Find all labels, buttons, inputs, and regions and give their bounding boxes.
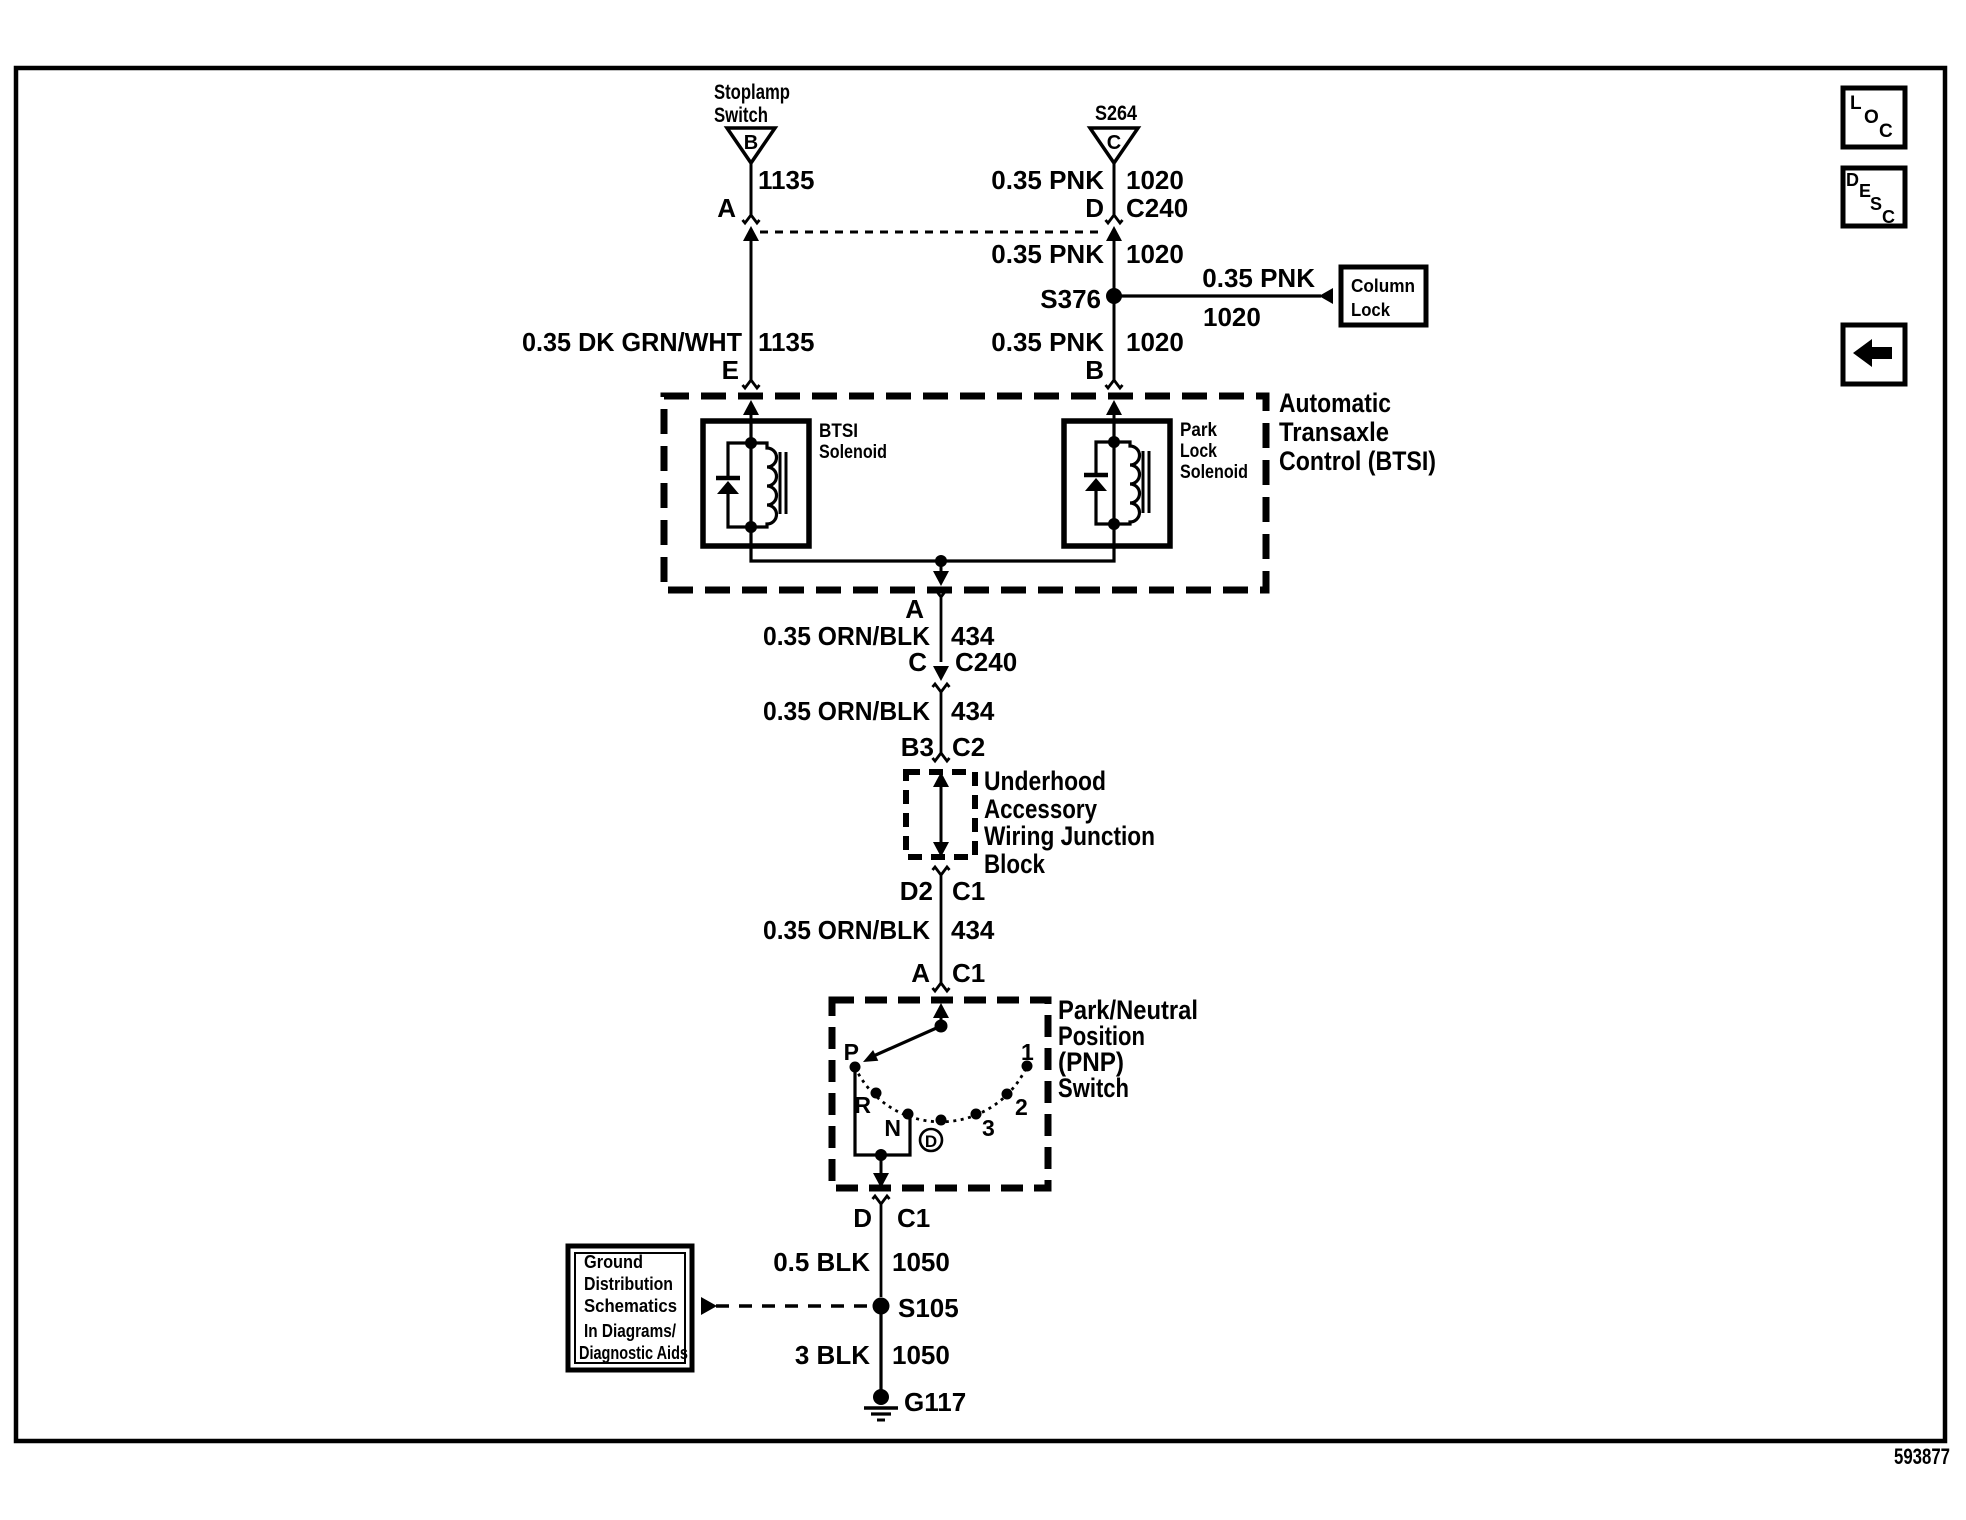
svg-text:Schematics: Schematics	[584, 1296, 677, 1316]
svg-text:0.35 ORN/BLK: 0.35 ORN/BLK	[763, 696, 930, 726]
Ground Distribution Schematics box	[568, 1246, 692, 1370]
PNP male up arrow at input	[933, 1003, 949, 1018]
svg-text:Lock: Lock	[1351, 300, 1391, 320]
svg-text:O: O	[1864, 107, 1879, 128]
contact 3 dot	[971, 1109, 982, 1120]
svg-text:B: B	[1085, 355, 1104, 385]
svg-text:S: S	[1870, 194, 1882, 214]
svg-text:Switch: Switch	[1058, 1073, 1129, 1103]
wire from S376 to Column Lock	[1114, 294, 1321, 297]
connector B at BTSI : female terminal	[1106, 380, 1123, 388]
junction block male down arrow	[933, 842, 949, 857]
connector B at BTSI : male arrow into box	[1106, 400, 1122, 444]
connector joint C240 : male down arrow	[933, 666, 949, 681]
contact 1 dot	[1022, 1061, 1033, 1072]
svg-text:C: C	[1882, 207, 1895, 227]
svg-text:0.35 ORN/BLK: 0.35 ORN/BLK	[763, 621, 930, 651]
splice S376 junction dot	[1106, 288, 1122, 304]
svg-text:R: R	[854, 1092, 871, 1118]
wire down from junction	[880, 1155, 883, 1173]
contact N dot	[903, 1109, 914, 1120]
svg-text:Solenoid: Solenoid	[1180, 462, 1248, 483]
BTSI solenoid top junction dot	[745, 437, 757, 449]
svg-text:1020: 1020	[1126, 239, 1184, 269]
Park Lock Solenoid label	[1180, 420, 1248, 483]
svg-text:1050: 1050	[892, 1247, 950, 1277]
Park Lock flyback diode branch	[1084, 442, 1114, 524]
contact D dot	[936, 1115, 947, 1126]
svg-text:0.35 PNK: 0.35 PNK	[991, 327, 1104, 357]
svg-text:In Diagrams/: In Diagrams/	[584, 1321, 676, 1341]
svg-text:Control (BTSI): Control (BTSI)	[1279, 446, 1436, 476]
Park Lock solenoid bottom junction dot	[1108, 518, 1120, 530]
off-page connector triangle B (Stoplamp Switch)	[727, 128, 775, 163]
svg-text:Automatic: Automatic	[1279, 388, 1391, 418]
connector joint C240 pin A : female terminal	[743, 215, 760, 223]
PNP male down arrow at output (pin D)	[873, 1173, 889, 1188]
LOC button box	[1843, 88, 1905, 147]
connector E at BTSI : male arrow into box	[743, 400, 759, 445]
connector joint C240 pin D : male arrow	[1106, 226, 1122, 380]
connector B3/C2 : female terminal	[933, 753, 950, 761]
bus wire joining both solenoids	[751, 546, 1114, 561]
svg-text:N: N	[884, 1115, 901, 1141]
svg-text:3: 3	[982, 1115, 995, 1141]
dotted contact arc	[855, 1066, 1027, 1122]
svg-text:Transaxle: Transaxle	[1279, 417, 1389, 447]
svg-text:C1: C1	[897, 1203, 930, 1233]
wire to ground G117	[879, 1313, 882, 1393]
svg-text:S264: S264	[1095, 102, 1137, 125]
BTSI solenoid bottom junction dot	[745, 521, 757, 533]
svg-text:C240: C240	[955, 647, 1017, 677]
dashed connector line C240	[760, 231, 1104, 234]
BTSI flyback diode branch	[716, 443, 751, 527]
PNP input wire stub	[940, 1015, 943, 1026]
svg-text:Solenoid: Solenoid	[819, 442, 887, 463]
svg-text:C2: C2	[952, 732, 985, 762]
svg-text:D: D	[925, 1132, 937, 1151]
connector joint C240 : female terminal	[933, 684, 950, 753]
junction dot on P-N wire	[875, 1149, 887, 1161]
arrowhead to Column Lock	[1319, 288, 1333, 304]
svg-text:S376: S376	[1040, 284, 1101, 314]
PNP wiper pivot dot	[935, 1020, 948, 1033]
svg-text:1050: 1050	[892, 1340, 950, 1370]
svg-text:1135: 1135	[758, 327, 814, 357]
svg-text:A: A	[717, 193, 736, 223]
svg-text:G117: G117	[904, 1387, 966, 1417]
connector joint C240 pin A : male arrow	[743, 226, 759, 380]
wire from bus junction to box edge	[940, 561, 943, 572]
label Automatic Transaxle Control (BTSI)	[1279, 388, 1436, 476]
svg-text:Switch: Switch	[714, 104, 768, 127]
Underhood Accessory Wiring Junction Block dashed box	[906, 772, 975, 857]
off-page connector triangle C (S264)	[1090, 128, 1138, 163]
svg-text:D2: D2	[900, 876, 933, 906]
svg-text:Underhood: Underhood	[984, 766, 1106, 796]
connector A/C1 : female terminal	[933, 983, 950, 991]
svg-text:C: C	[1879, 121, 1893, 142]
contact D circled label	[920, 1129, 942, 1151]
junction block internal wire	[940, 784, 943, 845]
contact R dot	[871, 1088, 882, 1099]
svg-text:1135: 1135	[758, 165, 814, 195]
svg-text:Ground: Ground	[584, 1252, 643, 1272]
svg-text:Accessory: Accessory	[984, 794, 1097, 824]
BTSI solenoid internal wire	[749, 420, 752, 548]
svg-text:434: 434	[951, 915, 995, 945]
Park Lock Solenoid box	[1064, 421, 1170, 546]
svg-text:B: B	[744, 132, 758, 154]
Park Lock solenoid top junction dot	[1108, 436, 1120, 448]
splice S105 junction dot	[873, 1298, 890, 1315]
PNP wiper arm arrow pointing at P	[863, 1026, 941, 1062]
svg-text:Diagnostic Aids: Diagnostic Aids	[579, 1343, 688, 1363]
svg-text:B3: B3	[901, 732, 934, 762]
svg-text:434: 434	[951, 696, 995, 726]
svg-text:Distribution: Distribution	[584, 1274, 673, 1294]
svg-text:Wiring Junction: Wiring Junction	[984, 821, 1155, 851]
svg-text:BTSI: BTSI	[819, 421, 858, 442]
contact P dot	[850, 1062, 861, 1073]
wire 1135 from triangle B down to connector C240 pin A	[750, 163, 753, 215]
BTSI solenoid coil	[751, 443, 786, 527]
BTSI Solenoid label	[819, 421, 887, 463]
female terminal below PNP box	[873, 1196, 890, 1297]
svg-text:Block: Block	[984, 849, 1046, 879]
back arrow button box	[1843, 325, 1905, 384]
svg-text:1020: 1020	[1126, 327, 1184, 357]
svg-text:S105: S105	[898, 1293, 959, 1323]
svg-text:Column: Column	[1351, 276, 1415, 296]
DESC button box	[1843, 168, 1905, 227]
svg-text:0.35 DK GRN/WHT: 0.35 DK GRN/WHT	[522, 327, 742, 357]
svg-text:3 BLK: 3 BLK	[795, 1340, 870, 1370]
label Underhood Accessory Wiring Junction Block	[984, 766, 1155, 879]
svg-text:593877: 593877	[1894, 1444, 1950, 1469]
svg-text:C1: C1	[952, 958, 985, 988]
junction block male up arrow	[933, 772, 949, 787]
svg-text:0.35 PNK: 0.35 PNK	[991, 165, 1104, 195]
svg-text:A: A	[911, 958, 930, 988]
svg-text:D: D	[853, 1203, 872, 1233]
svg-text:0.5 BLK: 0.5 BLK	[773, 1247, 870, 1277]
svg-text:0.35 PNK: 0.35 PNK	[1202, 263, 1315, 293]
svg-text:Lock: Lock	[1180, 441, 1217, 462]
svg-text:C: C	[908, 647, 927, 677]
Park Lock solenoid coil	[1114, 442, 1149, 524]
female terminal below junction block (D2/C1)	[933, 867, 950, 983]
svg-text:Park: Park	[1180, 420, 1217, 441]
svg-text:P: P	[844, 1039, 859, 1065]
svg-text:2: 2	[1015, 1094, 1028, 1120]
svg-text:A: A	[905, 594, 924, 624]
contact 2 dot	[1002, 1089, 1013, 1100]
ground G117 symbol	[864, 1389, 898, 1420]
wire 1020 from triangle C down to connector C240 pin D	[1113, 163, 1116, 215]
svg-text:Stoplamp: Stoplamp	[714, 81, 790, 104]
female terminal below BTSI box	[933, 589, 950, 662]
svg-text:L: L	[1850, 93, 1862, 114]
wire from P contact down	[855, 1067, 910, 1155]
label Park/Neutral Position (PNP) Switch	[1058, 995, 1198, 1103]
svg-text:1020: 1020	[1126, 165, 1184, 195]
Automatic Transaxle Control (BTSI) dashed box	[664, 396, 1266, 590]
svg-text:C: C	[1107, 132, 1121, 154]
svg-text:0.35 ORN/BLK: 0.35 ORN/BLK	[763, 915, 930, 945]
ground distribution reference arrowhead	[701, 1297, 717, 1315]
BTSI Solenoid box	[703, 421, 809, 546]
svg-text:D: D	[1846, 170, 1859, 190]
male arrow leaving BTSI box (pin A)	[933, 571, 949, 586]
connector joint C240 pin D : female terminal	[1106, 215, 1123, 223]
ground distribution reference dashed line	[716, 1304, 874, 1307]
svg-text:1: 1	[1021, 1039, 1034, 1065]
svg-text:D: D	[1085, 193, 1104, 223]
svg-text:1020: 1020	[1203, 302, 1261, 332]
connector E at BTSI : female terminal	[743, 380, 760, 388]
svg-text:E: E	[722, 355, 739, 385]
svg-text:C1: C1	[952, 876, 985, 906]
bus junction dot	[935, 555, 947, 567]
Column Lock box	[1341, 267, 1426, 325]
svg-text:C240: C240	[1126, 193, 1188, 223]
Park Lock solenoid internal wire	[1112, 420, 1115, 548]
svg-text:0.35 PNK: 0.35 PNK	[991, 239, 1104, 269]
Park/Neutral Position (PNP) Switch dashed box	[832, 1000, 1048, 1188]
